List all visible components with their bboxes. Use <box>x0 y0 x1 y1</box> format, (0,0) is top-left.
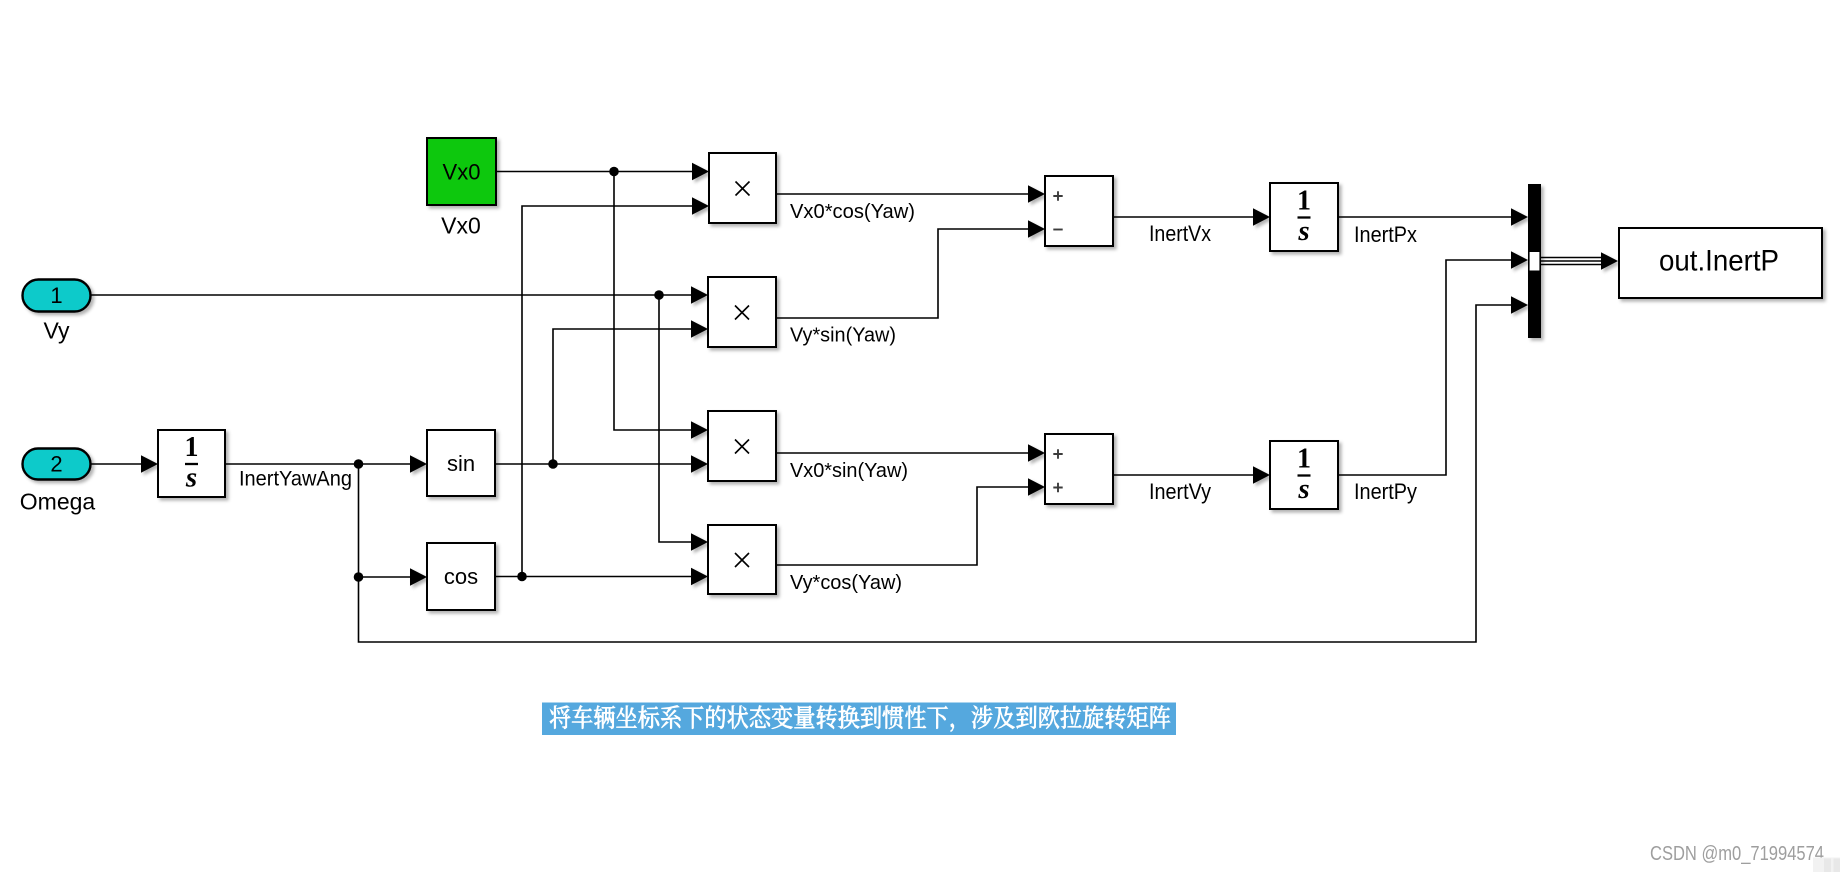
arrow into Product4 in1 <box>691 533 708 550</box>
annotation highlight box <box>542 703 1176 736</box>
node InertYawAng branch cos <box>354 572 364 582</box>
arrow into Sum2 in1 <box>1028 444 1045 461</box>
arrow into Product4 in2 <box>691 568 708 585</box>
arrow into cos <box>410 568 427 585</box>
watermark corner boxes <box>1813 858 1840 872</box>
svg-text:InertVy: InertVy <box>1149 479 1211 504</box>
mux block (black bar) <box>1528 184 1541 338</box>
wire Product4 out to Sum2 in2 <box>776 487 1032 565</box>
product block Product4 (Vy*cos) <box>708 525 776 594</box>
svg-text:2: 2 <box>50 452 62 477</box>
svg-text:InertPy: InertPy <box>1354 479 1417 504</box>
wire Integrator out InertYawAng to sin <box>225 463 415 465</box>
constant block Vx0 (green) <box>427 138 496 205</box>
arrow into Mux in3 <box>1511 296 1528 313</box>
svg-text:1: 1 <box>50 283 62 308</box>
svg-text:s: s <box>1297 215 1309 247</box>
svg-text:Omega: Omega <box>20 489 96 515</box>
svg-text:CSDN @m0_71994574: CSDN @m0_71994574 <box>1650 843 1824 865</box>
product block Product2 (Vy*sin) <box>708 277 776 347</box>
arrow into out.InertP <box>1601 252 1618 269</box>
inport 2 Omega (cyan oval) <box>23 449 91 480</box>
wire Integrator2 out InertPy to Mux in2 <box>1338 260 1516 475</box>
cos block <box>427 543 495 610</box>
wire Sum1 out InertVx to Integrator1 <box>1113 216 1258 218</box>
arrow into Sum1 in1 <box>1028 185 1045 202</box>
arrow into Product3 in2 <box>691 455 708 472</box>
wire feedback InertYawAng to Mux in3 <box>359 305 1517 642</box>
arrow into Sum2 in2 <box>1028 478 1045 495</box>
integrator block 1/s InertPx <box>1270 183 1338 251</box>
arrow into Integrator <box>141 455 158 472</box>
product block Product3 (Vx0*sin) <box>708 411 776 481</box>
wire sin out to Product3 in2 <box>495 463 695 465</box>
arrow into Product2 in2 <box>691 320 708 337</box>
integrator block 1/s InertPy <box>1270 441 1338 509</box>
arrow into Sum1 in2 <box>1028 220 1045 237</box>
wire branch Vx0 down to Product3 in1 <box>614 172 696 431</box>
arrow into Integrator1 <box>1253 208 1270 225</box>
annotation chinese text (vectorized) <box>550 705 1170 731</box>
inport 1 Vy (cyan oval) <box>23 280 91 312</box>
svg-text:s: s <box>1297 473 1309 505</box>
svg-text:1: 1 <box>185 432 199 463</box>
svg-text:sin: sin <box>447 451 475 476</box>
wire cos out to Product4 in2 <box>495 576 695 578</box>
sum block Sum1 (+ -) <box>1045 176 1113 246</box>
svg-text:InertPx: InertPx <box>1354 222 1417 247</box>
wire Product1 out to Sum1 in1 <box>776 193 1032 195</box>
wire Product2 out to Sum1 in2 <box>776 229 1032 318</box>
wire Integrator1 out InertPx to Mux in1 <box>1338 216 1516 218</box>
outport block out.InertP <box>1619 228 1822 298</box>
wire Omega to Integrator <box>91 463 146 465</box>
svg-text:Vy: Vy <box>44 318 70 344</box>
integrator block 1/s (yaw) <box>158 430 225 497</box>
sum block Sum2 (+ +) <box>1045 434 1113 504</box>
arrow into sin <box>410 455 427 472</box>
wire Mux out vector triple line to out.InertP <box>1541 258 1604 265</box>
svg-text:1: 1 <box>1297 444 1311 475</box>
arrow into Mux in2 <box>1511 251 1528 268</box>
svg-text:out.InertP: out.InertP <box>1659 245 1779 278</box>
svg-text:InertVx: InertVx <box>1149 221 1211 246</box>
node Vy branch <box>654 290 664 300</box>
svg-text:InertYawAng: InertYawAng <box>239 468 352 491</box>
node cos out branch <box>517 572 527 582</box>
product block Product1 (Vx0*cos) <box>709 153 776 223</box>
wire branch sin out up to Product2 in2 <box>553 329 695 464</box>
arrow into Integrator2 <box>1253 466 1270 483</box>
arrow into Product2 in1 <box>691 286 708 303</box>
wire branch InertYawAng down to cos <box>359 464 416 577</box>
wire branch Vy down to Product4 in1 <box>659 295 695 542</box>
svg-text:Vy*sin(Yaw): Vy*sin(Yaw) <box>790 325 896 347</box>
svg-text:Vx0: Vx0 <box>441 213 481 239</box>
svg-text:Vx0*sin(Yaw): Vx0*sin(Yaw) <box>790 460 908 482</box>
wire Vx0 to Product1 in1 <box>496 171 696 173</box>
arrow into Mux in1 <box>1511 208 1528 225</box>
arrow into Product1 in1 <box>692 163 709 180</box>
arrow into Product1 in2 <box>692 197 709 214</box>
node Vx0 branch <box>609 167 619 177</box>
svg-text:Vx0*cos(Yaw): Vx0*cos(Yaw) <box>790 201 915 223</box>
wire Vy to Product2 in1 <box>91 294 695 296</box>
node InertYawAng branch sin <box>354 459 364 469</box>
svg-text:s: s <box>185 462 197 494</box>
svg-text:cos: cos <box>444 564 478 589</box>
sin block <box>427 430 495 496</box>
mux port marker white square <box>1530 252 1540 271</box>
svg-text:Vx0: Vx0 <box>443 160 481 185</box>
svg-text:Vy*cos(Yaw): Vy*cos(Yaw) <box>790 572 902 594</box>
arrow into Product3 in1 <box>691 421 708 438</box>
svg-text:1: 1 <box>1297 186 1311 217</box>
wire Sum2 out InertVy to Integrator2 <box>1113 474 1258 476</box>
wire Product3 out to Sum2 in1 <box>776 452 1032 454</box>
node sin out branch <box>548 459 558 469</box>
wire branch cos out up to Product1 in2 <box>522 206 696 577</box>
